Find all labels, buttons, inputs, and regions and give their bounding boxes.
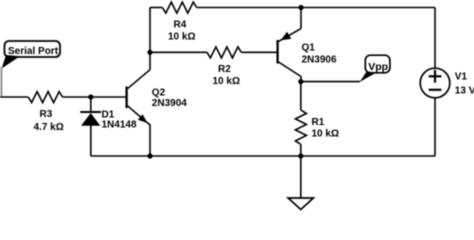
resistor R1 [295,110,339,144]
svg-text:10 kΩ: 10 kΩ [168,32,195,43]
node Vpp label [360,55,390,82]
wire [90,126,92,157]
svg-text:2N3906: 2N3906 [302,54,337,65]
wire [0,96,28,98]
wire [90,97,92,112]
wire [434,98,436,156]
wire [150,51,207,53]
svg-text:10 kΩ: 10 kΩ [312,129,339,140]
ground [288,198,313,210]
transistor Q1 [278,29,337,77]
svg-text:R1: R1 [312,117,325,128]
wire [149,124,151,156]
svg-text:4.7 kΩ: 4.7 kΩ [34,122,64,133]
transistor Q2 [127,70,188,125]
wire [300,77,302,83]
wire [197,7,435,9]
node Serial Port label [2,41,60,69]
svg-text:R3: R3 [40,109,53,120]
diode D1 [80,110,137,131]
svg-text:R2: R2 [218,64,231,75]
wire bottom rail [91,155,435,157]
node junction dot [88,94,93,99]
svg-text:Vpp: Vpp [368,61,388,73]
svg-text:13 V: 13 V [455,86,474,97]
wire [300,82,302,110]
svg-text:Serial Port: Serial Port [8,46,59,57]
wire [150,7,162,9]
resistor R3 [28,92,64,133]
resistor R2 [207,47,241,87]
wire [300,156,302,198]
wire [0,67,2,96]
node junction dot [147,153,152,158]
svg-text:2N3904: 2N3904 [152,98,187,109]
svg-text:1N4148: 1N4148 [102,120,137,131]
node junction dot [298,79,303,84]
node junction dot [298,5,303,10]
node junction dot [147,50,152,55]
wire [300,8,302,29]
wire [149,8,151,70]
svg-text:10 kΩ: 10 kΩ [213,76,240,87]
wire [300,144,302,156]
wire [434,8,436,69]
voltage source V1 [420,68,474,98]
svg-text:V1: V1 [455,72,468,83]
wire [63,96,127,98]
svg-text:R4: R4 [174,20,187,31]
wire [241,51,276,53]
svg-text:Q1: Q1 [302,43,316,54]
wire [301,81,360,83]
node junction dot [298,153,303,158]
resistor R4 [162,2,196,42]
